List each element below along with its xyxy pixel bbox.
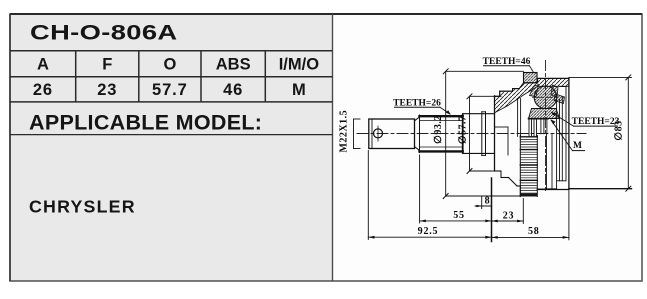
svg-text:CH-O-806A: CH-O-806A [30,21,177,45]
right face of joint [568,78,570,188]
svg-text:∅83: ∅83 [614,120,625,140]
svg-text:46: 46 [223,81,243,99]
svg-text:57.7: 57.7 [152,81,188,99]
bell outer top right [537,78,539,83]
threaded stem M22X1.5 [369,119,415,149]
svg-text:55: 55 [453,210,465,221]
drawing panel background [333,14,643,281]
svg-text:A: A [37,56,49,74]
svg-text:M: M [573,141,582,151]
inner race [529,109,560,119]
bell housing left face [494,96,496,171]
svg-text:TEETH=23: TEETH=23 [572,117,620,127]
bell outer profile top steps [495,95,500,97]
inner cavity lines near mouth [495,126,509,128]
ball bearing [534,86,557,109]
cage right piece [551,85,558,97]
svg-text:ABS: ABS [216,56,251,74]
svg-text:∅93.2: ∅93.2 [433,115,444,144]
M22X1.5 dimension [353,119,355,149]
svg-text:I/M/O: I/M/O [279,56,319,74]
main horizontal centerline [357,133,586,135]
cross hole in stem [374,129,383,138]
bell bottom profile [495,170,502,172]
table grid lines [10,50,333,52]
bell wall hatched section (top) [495,78,569,112]
svg-text:F: F [102,56,112,74]
table panel background [10,14,333,281]
svg-text:23: 23 [503,211,515,222]
ABS ring TEETH=46 [524,73,538,83]
svg-text:CHRYSLER: CHRYSLER [29,197,136,217]
lower half inner verticals [546,135,548,189]
svg-text:M22X1.5: M22X1.5 [339,110,350,153]
svg-text:23: 23 [97,81,117,99]
svg-text:92.5: 92.5 [418,226,439,237]
neck between spline and joint [463,113,495,115]
panel divider [332,14,334,281]
cage tab to face [554,94,565,104]
race spline lines [528,119,530,136]
svg-text:26: 26 [33,81,53,99]
svg-text:APPLICABLE MODEL:: APPLICABLE MODEL: [29,111,262,135]
cage left piece [530,85,539,97]
upper lines left of serration band [517,99,519,137]
circlip on neck [481,112,483,156]
svg-text:∅57.7: ∅57.7 [458,115,469,144]
svg-text:O: O [163,56,176,74]
serrated band (lower half) [519,136,521,197]
svg-text:8: 8 [485,195,491,206]
svg-text:M: M [292,81,306,99]
vertical centerline through ball [545,61,547,192]
long extension line at bell face [491,178,493,242]
svg-text:58: 58 [528,226,540,237]
spline section TEETH=26 [420,115,463,117]
